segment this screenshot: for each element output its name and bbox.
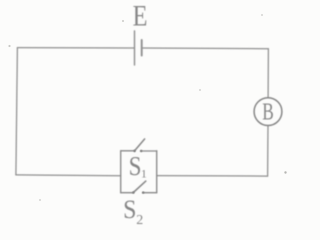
switch S2 contact dot — [142, 191, 144, 193]
wire bottom-right — [157, 175, 268, 178]
switch box left edge — [120, 151, 122, 193]
switch S2 lever — [133, 181, 146, 192]
svg-text:S: S — [123, 196, 136, 224]
switch box top edge right segment — [141, 150, 157, 152]
switch S2 pivot dot — [132, 191, 134, 193]
switch S1 pivot dot — [133, 150, 135, 152]
wire bottom-left — [16, 174, 121, 177]
switch S1 lever — [135, 139, 145, 151]
svg-text:2: 2 — [136, 213, 143, 228]
svg-text:B: B — [262, 97, 274, 125]
switch box bottom edge right segment — [143, 192, 157, 194]
switch box bottom edge left segment — [121, 192, 134, 194]
svg-text:1: 1 — [141, 167, 147, 181]
wire top-left — [17, 47, 134, 49]
switch box top edge left segment — [121, 150, 135, 152]
battery E long plate — [134, 31, 136, 65]
svg-text:E: E — [133, 0, 148, 32]
wire left — [16, 48, 18, 175]
scan noise specks — [8, 14, 286, 201]
battery E short plate — [141, 40, 143, 56]
wire right upper — [267, 49, 269, 98]
switch S1 contact dot — [140, 150, 142, 152]
switch box right edge — [156, 151, 158, 193]
svg-text:S: S — [129, 151, 142, 181]
wire top-right — [142, 47, 269, 50]
lamp B circle — [254, 98, 282, 126]
wire right lower — [267, 126, 269, 177]
